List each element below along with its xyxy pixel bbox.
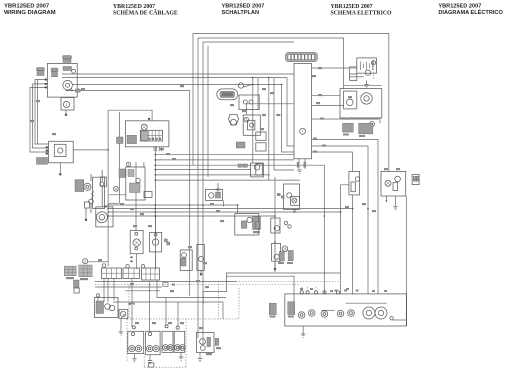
svg-text:3: 3 [245,118,247,122]
svg-text:DIAGRAMA ELÉCTRICO: DIAGRAMA ELÉCTRICO [438,8,503,16]
svg-text:YBR125ED 2007: YBR125ED 2007 [222,4,265,10]
svg-text:1: 1 [65,103,67,107]
svg-text:SCHÉMA DE CÂBLAGE: SCHÉMA DE CÂBLAGE [113,8,178,16]
svg-text:SCHEMA ELETTRICO: SCHEMA ELETTRICO [331,10,393,16]
svg-text:SCHALTPLAN: SCHALTPLAN [222,10,260,16]
svg-text:YBR125ED 2007: YBR125ED 2007 [331,4,373,10]
svg-text:2: 2 [84,260,86,264]
svg-text:WIRING DIAGRAM: WIRING DIAGRAM [4,10,56,16]
svg-text:YBR125ED 2007: YBR125ED 2007 [4,4,50,10]
svg-text:YBR125ED 2007: YBR125ED 2007 [113,4,155,10]
svg-text:7: 7 [302,130,304,134]
svg-text:9: 9 [372,61,374,65]
svg-text:1: 1 [127,163,129,167]
svg-text:YBR125ED 2007: YBR125ED 2007 [438,4,481,10]
